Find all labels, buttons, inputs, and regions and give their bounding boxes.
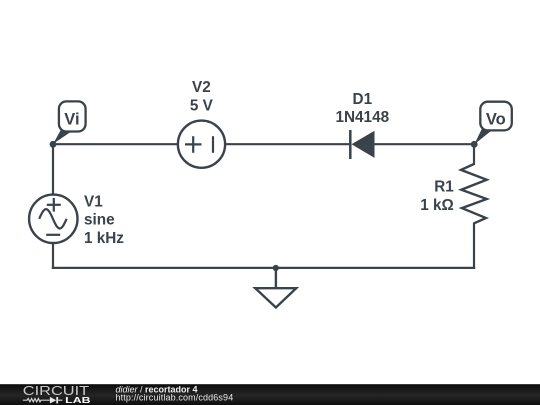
svg-text:R1: R1 <box>434 179 454 196</box>
wire top rail left segment <box>53 143 179 145</box>
logo diode glyph <box>50 397 56 404</box>
wire left vertical lower <box>52 242 54 269</box>
label V1 value <box>84 194 124 248</box>
svg-text:sine: sine <box>84 211 115 228</box>
diode D1 <box>350 130 374 159</box>
svg-text:V2: V2 <box>192 79 211 96</box>
svg-text:Vi: Vi <box>64 110 79 128</box>
label D1 value <box>336 91 390 126</box>
voltage source V1 <box>29 195 77 243</box>
wire right vertical upper <box>473 144 475 165</box>
wire bottom rail <box>52 267 475 269</box>
node Vo <box>471 102 512 148</box>
resistor R1 <box>461 164 487 223</box>
svg-text:D1: D1 <box>353 91 373 108</box>
svg-text:Vo: Vo <box>486 110 506 128</box>
svg-text:V1: V1 <box>84 194 103 211</box>
svg-text:http://circuitlab.com/cdd6s94: http://circuitlab.com/cdd6s94 <box>116 393 234 403</box>
wire right vertical lower <box>473 223 475 270</box>
wire top rail middle segment <box>224 143 350 145</box>
footer bar <box>0 384 540 405</box>
logo resistor zigzag <box>23 399 50 402</box>
wire top rail right segment <box>374 143 474 145</box>
label R1 value <box>420 179 454 215</box>
svg-text:1 kΩ: 1 kΩ <box>420 197 454 214</box>
voltage source V2 <box>178 121 225 168</box>
wire left vertical upper <box>52 144 54 196</box>
ground <box>255 265 296 308</box>
node Vi <box>50 101 86 147</box>
svg-text:1N4148: 1N4148 <box>336 109 390 126</box>
label V2 value <box>190 79 214 114</box>
svg-text:1 kHz: 1 kHz <box>84 230 124 247</box>
svg-text:LAB: LAB <box>65 396 91 405</box>
svg-text:5 V: 5 V <box>190 98 214 115</box>
